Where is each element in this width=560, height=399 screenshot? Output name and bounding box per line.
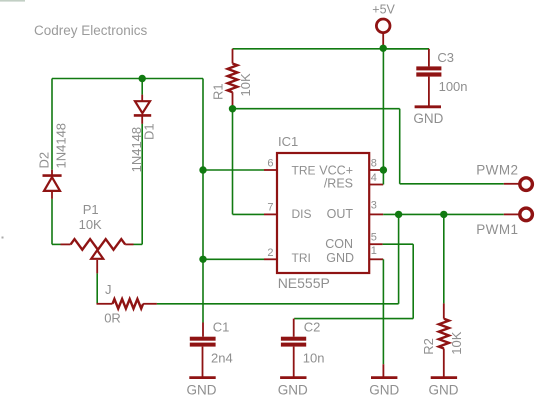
svg-text:5: 5 <box>371 232 377 244</box>
svg-text:C3: C3 <box>437 50 454 65</box>
svg-text:C2: C2 <box>304 320 321 335</box>
potentiometer P1 <box>61 243 71 245</box>
svg-text:Codrey Electronics: Codrey Electronics <box>34 23 148 38</box>
svg-text:GND: GND <box>369 382 399 397</box>
diode D2 <box>51 170 53 176</box>
pin 3 OUT stub <box>369 213 383 215</box>
svg-text:0R: 0R <box>104 311 121 326</box>
browser artifact bar <box>0 0 25 2</box>
svg-text:10K: 10K <box>79 217 102 232</box>
svg-text:IC1: IC1 <box>278 134 298 149</box>
svg-text:2: 2 <box>267 247 273 259</box>
capacitor C1 <box>202 323 204 337</box>
wire D2 to P1 left <box>51 199 53 245</box>
wire +5V to pin8 vertical <box>382 48 384 170</box>
svg-text:R1: R1 <box>211 83 226 100</box>
pin 2 TRI stub <box>264 258 277 260</box>
svg-text:R2: R2 <box>421 338 436 355</box>
ground under pin1 <box>371 376 397 379</box>
junction OUT-R2 <box>440 211 447 218</box>
svg-text:TRI: TRI <box>292 251 311 265</box>
junction pin6 node <box>199 166 206 173</box>
wire pin6 TRE <box>203 169 264 171</box>
svg-text:GND: GND <box>413 111 443 126</box>
svg-text:10K: 10K <box>238 73 253 96</box>
svg-text:GND: GND <box>278 382 308 397</box>
junction R1 bottom <box>229 105 236 112</box>
pin 5 CON stub <box>369 243 382 245</box>
wire TRE-TRI vertical <box>202 79 204 323</box>
pad PWM1 <box>504 213 519 215</box>
svg-text:7: 7 <box>267 201 273 213</box>
wire D2 top <box>51 79 53 170</box>
junction pin8 node <box>380 166 387 173</box>
svg-text:+5V: +5V <box>372 3 395 17</box>
svg-text:VCC+: VCC+ <box>319 163 353 177</box>
svg-text:NE555P: NE555P <box>278 275 330 291</box>
pin 6 TRE stub <box>264 169 277 171</box>
op-amp U1 IC1 NE555P box <box>277 153 369 273</box>
resistor R1 <box>232 49 234 64</box>
junction +5V node <box>380 45 387 52</box>
wire J to OUT <box>157 303 399 305</box>
pin 1 GND stub <box>369 258 383 260</box>
wire OUT to R2 <box>443 214 445 303</box>
junction OUT-J <box>395 211 402 218</box>
svg-text:/RES: /RES <box>324 177 353 191</box>
pin 8 VCC stub <box>369 169 383 171</box>
pin 7 DIS stub <box>264 213 277 215</box>
wire +5V to C3 <box>383 48 429 50</box>
wire top-left horizontal <box>52 78 203 80</box>
ground under C2 <box>280 376 306 379</box>
wire pin1 to ground <box>382 259 384 364</box>
svg-text:8: 8 <box>371 157 377 169</box>
svg-text:PWM1: PWM1 <box>476 222 518 237</box>
resistor J <box>97 303 113 305</box>
wire R1 to DIS vertical <box>232 109 234 215</box>
wire OUT <box>383 213 504 215</box>
wire pin2 TRI <box>203 258 264 260</box>
svg-text:3: 3 <box>371 200 377 212</box>
pin 4 /RES stub <box>369 184 383 186</box>
svg-text:C1: C1 <box>213 320 230 335</box>
svg-text:10n: 10n <box>303 350 325 365</box>
wire R1 to PWM2 <box>233 108 400 110</box>
wire CON to C2 <box>383 243 414 245</box>
svg-text:OUT: OUT <box>327 207 354 221</box>
svg-text:D1: D1 <box>142 123 157 140</box>
node speck <box>2 237 4 239</box>
svg-text:1N4148: 1N4148 <box>54 123 69 169</box>
wire D1 to P1 right <box>141 124 143 244</box>
wire +5V rail horizontal <box>233 48 429 50</box>
capacitor C2 <box>293 319 295 337</box>
svg-text:6: 6 <box>267 157 273 169</box>
ground under C1 <box>189 376 215 379</box>
wire pin8 to pin4 <box>382 170 384 185</box>
svg-text:CON: CON <box>325 237 353 251</box>
svg-text:DIS: DIS <box>292 207 312 221</box>
svg-text:PWM2: PWM2 <box>476 163 518 178</box>
svg-text:4: 4 <box>371 172 377 184</box>
diode D1 <box>141 95 143 102</box>
svg-text:1: 1 <box>371 245 377 257</box>
ground under C3 <box>415 105 441 108</box>
capacitor C3 <box>428 49 430 67</box>
junction pin2 node <box>199 256 206 263</box>
svg-text:GND: GND <box>326 251 354 265</box>
svg-text:J: J <box>105 282 112 297</box>
svg-text:P1: P1 <box>83 202 99 217</box>
wire D1 top lead <box>141 79 143 95</box>
wire P1 wiper to J <box>96 273 98 303</box>
svg-text:GND: GND <box>429 382 459 397</box>
svg-text:2n4: 2n4 <box>211 350 233 365</box>
svg-text:D2: D2 <box>37 152 52 169</box>
svg-text:10K: 10K <box>449 331 464 354</box>
resistor R2 <box>443 303 445 318</box>
pad PWM2 <box>504 183 519 185</box>
junction D1 top <box>139 75 146 82</box>
svg-text:100n: 100n <box>439 79 468 94</box>
ground under R2 <box>431 376 457 379</box>
svg-text:TRE: TRE <box>292 163 316 177</box>
supply +5V <box>376 19 390 33</box>
svg-text:GND: GND <box>187 382 217 397</box>
